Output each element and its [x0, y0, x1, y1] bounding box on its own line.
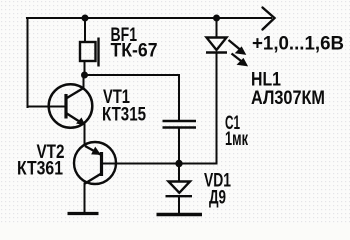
svg-text:КТ315: КТ315: [102, 105, 146, 126]
node BF1 top: [82, 15, 89, 22]
svg-text:1мк: 1мк: [225, 129, 248, 150]
svg-text:Д9: Д9: [209, 188, 226, 209]
wire C1 top lead: [178, 75, 180, 120]
svg-text:+1,0...1,6В: +1,0...1,6В: [252, 34, 344, 55]
wire LED cathode column: [216, 53, 218, 164]
wire VD1 cathode stem: [178, 198, 180, 214]
wire VT1 base lead: [28, 106, 65, 108]
LED light arrows: [229, 40, 247, 66]
wire BF1 bottom stem: [84, 61, 86, 75]
transistor VT1: [49, 75, 93, 128]
wire left rail: [27, 18, 29, 107]
wire top rail: [27, 17, 271, 19]
capsule BF1: [80, 38, 99, 67]
wire VT2 base to LED column: [102, 163, 217, 165]
wire VT2 collector lead: [84, 184, 86, 213]
wire VD1 anode stem: [178, 164, 180, 182]
terminal VD1 cathode bar: [157, 213, 203, 216]
svg-text:АЛ307КМ: АЛ307КМ: [251, 88, 325, 109]
wire BF1 top stem: [84, 18, 86, 42]
svg-text:ТК-67: ТК-67: [111, 41, 158, 62]
transistor VT2: [74, 142, 116, 184]
LED HL1: [206, 38, 227, 53]
terminal VT2 collector bar: [68, 212, 99, 215]
node VD1 C1 VT2: [175, 160, 182, 167]
terminal arrow output: [263, 8, 275, 30]
wire LED anode column: [216, 18, 218, 37]
wire node collector to C1: [85, 74, 180, 76]
wire C1 bottom lead: [178, 129, 180, 164]
capacitor C1: [163, 121, 197, 128]
svg-text:КТ361: КТ361: [17, 159, 63, 180]
node LED top: [213, 15, 220, 22]
wire VT1 emitter to VT2 emitter: [84, 124, 86, 145]
node collector BF1: [81, 72, 88, 79]
diode VD1: [166, 182, 193, 197]
